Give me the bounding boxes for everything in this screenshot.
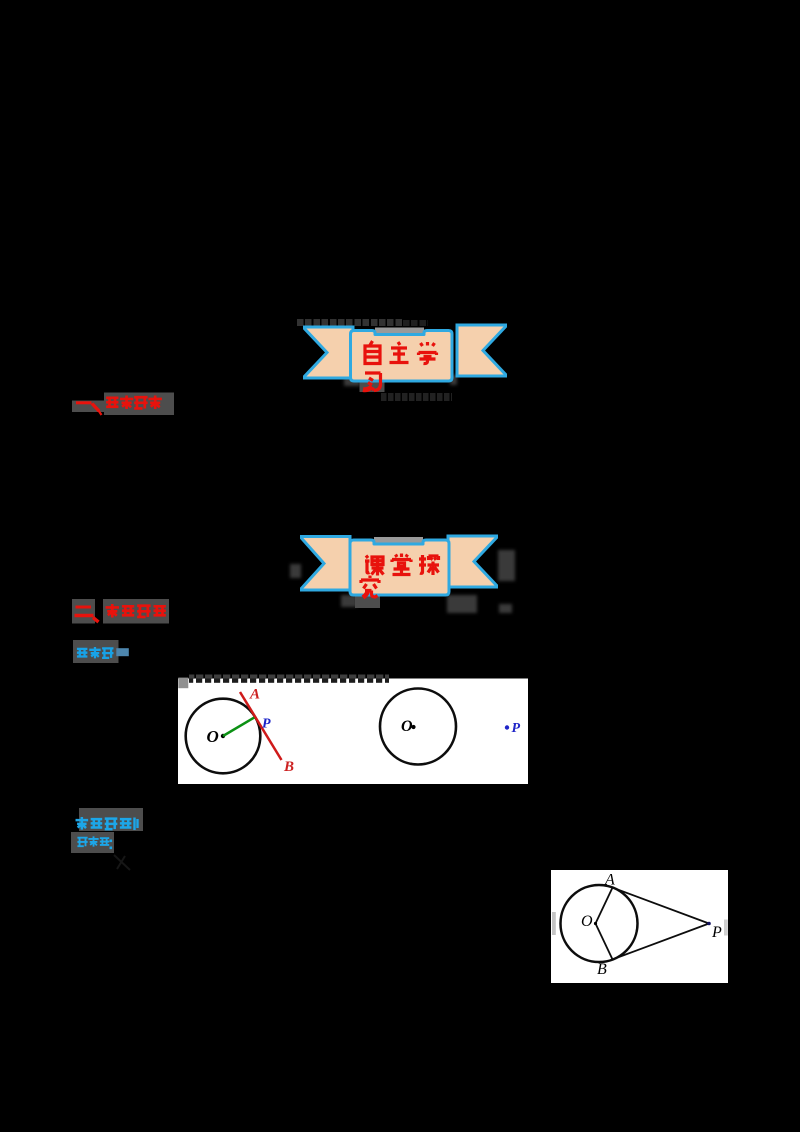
svg-text:A: A	[604, 872, 615, 889]
svg-text:P: P	[711, 924, 722, 941]
svg-text:B: B	[283, 759, 294, 775]
svg-text:O: O	[581, 913, 593, 930]
svg-text:A: A	[249, 687, 260, 703]
svg-text:P: P	[262, 717, 271, 732]
svg-text:B: B	[597, 961, 607, 978]
svg-text:O: O	[401, 718, 413, 735]
svg-text:O: O	[207, 727, 219, 746]
svg-text:P: P	[512, 721, 521, 736]
